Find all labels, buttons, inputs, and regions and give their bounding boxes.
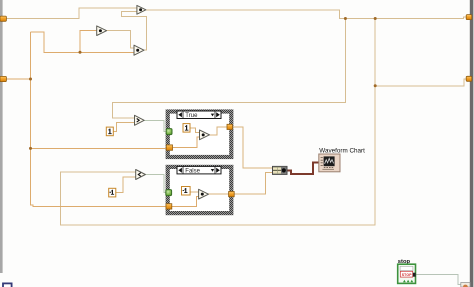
wire U2 output to False right tunnel [209, 193, 229, 195]
numeric constant -1 [109, 188, 116, 197]
wire U1 output to True right tunnel [210, 127, 228, 135]
wire boolean greater-than to True selector terminal [144, 120, 166, 131]
wire junction J1 down-left to greater-than top input [113, 19, 346, 118]
wire True-case left tunnel to U1 bottom input [173, 137, 200, 148]
wire T1 output to right tunnel1 [146, 10, 467, 18]
False case right tunnel [229, 192, 235, 197]
greater-than comparator [135, 115, 145, 125]
True selector label [177, 111, 221, 119]
wire True-case inner constant to U1 [190, 128, 200, 133]
multiply U2 inside False case [199, 189, 209, 199]
multiply T1 [137, 5, 146, 14]
while loop left border [0, 0, 3, 273]
wire False-case inner constant to U2 top input [190, 191, 199, 193]
numeric constant -1 inside False [182, 187, 191, 196]
svg-text:STOP: STOP [402, 273, 413, 277]
True case right tunnel [227, 124, 232, 129]
tunnel left 1 [0, 16, 6, 21]
iteration terminal [3, 283, 12, 287]
wire boolean less-than to False selector terminal [145, 175, 165, 193]
wire constant C2 to less-than bottom input [116, 177, 136, 193]
loop condition terminal [461, 283, 470, 287]
True case left tunnel [166, 145, 172, 150]
waveform chart label [319, 147, 365, 154]
waveform chart icon [319, 154, 340, 172]
svg-text:False: False [185, 168, 200, 174]
tunnel left 2 [0, 76, 6, 81]
while loop right border [470, 0, 474, 287]
True selector terminal [166, 129, 172, 135]
less-than comparator [136, 170, 146, 180]
wire False-case left tunnel to U2 bottom input [172, 197, 199, 207]
bundle node [273, 166, 288, 174]
numeric constant 1 inside True [183, 124, 190, 133]
wire boolean stop to loop condition terminal [416, 275, 461, 285]
svg-text:Waveform Chart: Waveform Chart [319, 147, 365, 154]
numeric constant 1 [106, 127, 113, 136]
False selector label [177, 166, 221, 174]
case structure False [166, 165, 234, 215]
tunnel right 2 [466, 76, 472, 81]
multiply T3 [134, 45, 144, 55]
wire junction J3 to right tunnel2 [375, 79, 466, 86]
stop boolean terminal [398, 264, 416, 283]
False selector terminal [166, 190, 172, 196]
wire cluster bundle to waveform chart [287, 163, 319, 174]
stop label [398, 259, 411, 265]
wire constant C1 to greater-than bottom input [113, 122, 134, 131]
case structure True [166, 109, 234, 159]
wire False right tunnel to bundle bottom input [234, 173, 272, 195]
False case left tunnel [166, 204, 172, 209]
multiply U1 inside True case [200, 130, 210, 140]
wire tunnel2-left to vertical bus [5, 78, 31, 80]
svg-text:True: True [185, 113, 198, 119]
wire T2 output to T3 top input [107, 31, 134, 48]
wire junction J2 down around bottom to less-than top input [61, 19, 376, 225]
multiply T2 [97, 26, 107, 36]
wire feedback T3 output to T1 bottom input [122, 12, 147, 51]
wire vertical bus x=30.5 with branches [31, 31, 167, 207]
wire tunnel1-left to multiply T1 top input [5, 8, 137, 18]
wire True right tunnel to bundle top input [232, 127, 272, 168]
tunnel right 1 [466, 15, 472, 20]
